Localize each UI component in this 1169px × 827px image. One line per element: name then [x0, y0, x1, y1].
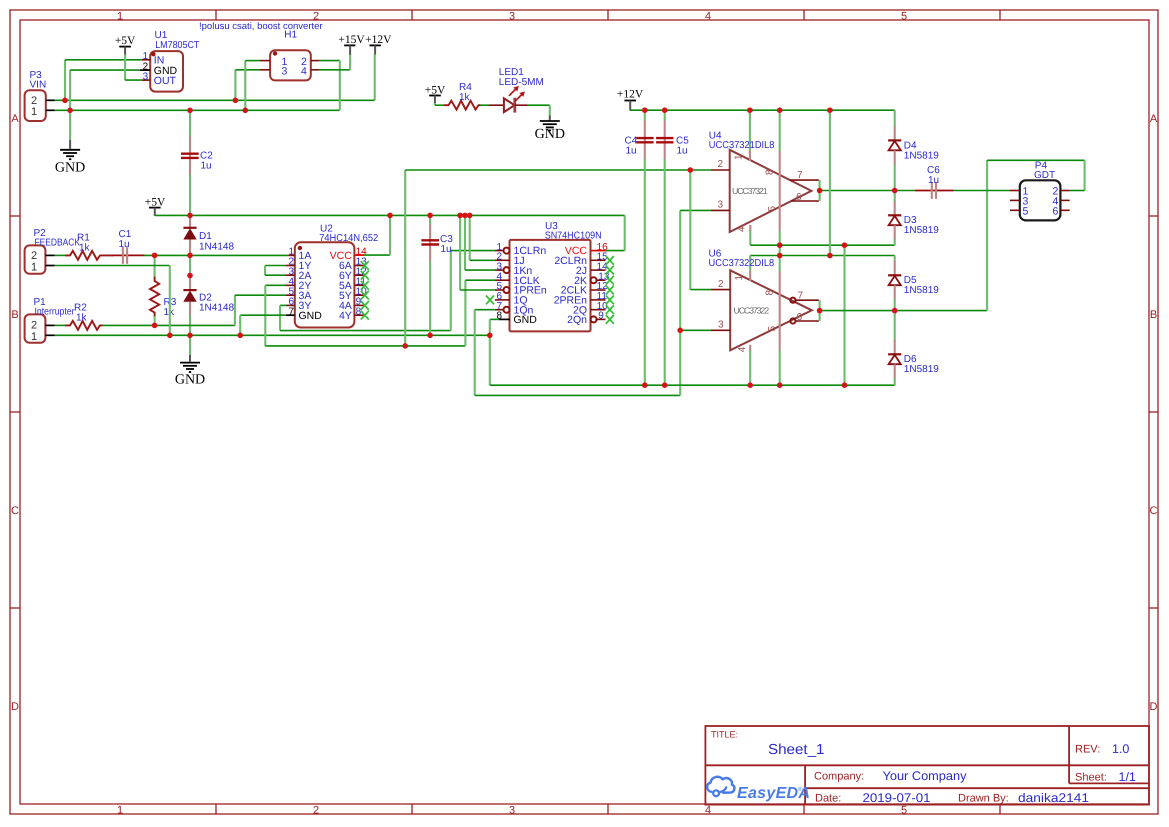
svg-text:®: ®: [798, 786, 803, 793]
wire R3 upper: [154, 255, 156, 277]
svg-text:3: 3: [282, 65, 288, 77]
wire C5 lower to gnd bus: [664, 159, 666, 385]
wire D2 anode to GND net: [189, 315, 191, 335]
node rail12-C4: [642, 107, 648, 113]
wire U6 output to P4 riser: [820, 310, 988, 312]
svg-text:OUT: OUT: [154, 75, 177, 87]
svg-text:1u: 1u: [119, 239, 130, 250]
svg-text:4: 4: [705, 804, 711, 816]
wire H1 pin1 riser: [244, 61, 246, 111]
wire +12V to VIN net: [374, 55, 376, 101]
svg-text:UCC37321DIL8: UCC37321DIL8: [709, 140, 775, 151]
svg-text:4: 4: [737, 226, 748, 232]
svg-text:Your Company: Your Company: [883, 769, 968, 783]
svg-text:1N5819: 1N5819: [904, 364, 939, 375]
power +12V (top): [365, 34, 392, 55]
svg-text:8: 8: [765, 290, 776, 296]
svg-text:UCC37321: UCC37321: [732, 186, 768, 196]
node rail12-C5: [662, 107, 668, 113]
svg-text:D: D: [1150, 701, 1158, 713]
ground symbol GND1: [55, 140, 85, 176]
svg-text:1u: 1u: [201, 160, 212, 171]
wire U2 pin7 to GND: [240, 314, 286, 316]
svg-text:UCC37322DIL8: UCC37322DIL8: [709, 258, 775, 269]
wire rail12 corner to D4: [894, 110, 896, 127]
svg-text:1: 1: [734, 154, 745, 160]
node clock-riser: [402, 343, 408, 349]
node VIN-U1: [62, 98, 68, 104]
svg-text:REV:: REV:: [1075, 744, 1100, 756]
node rail-U3pin3: [462, 213, 468, 219]
svg-text:1N5819: 1N5819: [904, 151, 939, 162]
wire U2 2Y to clock net: [265, 284, 285, 286]
wire D4 to out node: [894, 164, 896, 190]
node u4gnd-pin5: [777, 242, 783, 248]
U2 left pin stubs: [288, 254, 295, 256]
svg-text:6: 6: [797, 312, 803, 323]
U2 right pin numbers: [356, 246, 368, 317]
node gndbus-U6pin5: [777, 382, 783, 388]
svg-text:1u: 1u: [928, 175, 939, 186]
node gndbus-C4: [642, 382, 648, 388]
wire U6 pin5 to gnd bus: [779, 350, 781, 385]
wire U6 pin4/5 to gnd bus: [749, 351, 751, 386]
wire U3 pin8 to GND: [490, 318, 499, 320]
wire H1 pin2 to GND net: [319, 60, 340, 62]
svg-text:3: 3: [509, 804, 515, 816]
wire FEEDBACK net C1 to U2 pin1: [144, 254, 288, 256]
diode D2 1N4148: [183, 276, 234, 315]
svg-text:4Y: 4Y: [339, 310, 352, 322]
svg-text:9: 9: [598, 311, 604, 322]
wire U1 pin1 riser: [64, 60, 66, 101]
node FEEDBACK-D1: [187, 253, 193, 259]
wire out node to D3: [894, 191, 896, 202]
svg-text:Sheet_1: Sheet_1: [768, 742, 825, 758]
diode D3 1N5819: [888, 201, 939, 240]
svg-text:1: 1: [117, 11, 123, 23]
svg-text:1: 1: [31, 262, 37, 274]
wire VIN net P3.2 to U1/H1/+12V: [55, 99, 375, 101]
wire rail to U4 pin1: [749, 110, 751, 151]
LED LED1: [490, 67, 544, 113]
wire U2 3Y to U3 1CLRn: [280, 304, 287, 306]
diode D4 1N5819: [888, 126, 939, 165]
wire +5V to R4: [434, 103, 436, 105]
svg-text:5: 5: [901, 804, 907, 816]
ground symbol GND2: [535, 116, 565, 143]
wire +12V rail: [630, 109, 895, 111]
capacitor C3: [421, 223, 453, 262]
capacitor C5: [656, 110, 689, 159]
wire +12V drop to U6 vdd: [829, 110, 831, 255]
IC U3 SN74HC109N: [486, 221, 614, 331]
node GND-D2: [187, 333, 193, 339]
node GND-P2.1: [167, 333, 173, 339]
power +5V (U1 out): [115, 35, 136, 55]
svg-text:A: A: [1150, 113, 1158, 125]
U2 no-connect marks: [361, 261, 369, 319]
driver U6 UCC37322: [709, 249, 819, 353]
node GND-C2: [187, 108, 193, 114]
wire rail to U3 pin2: [469, 215, 471, 260]
node D2 cathode: [187, 273, 193, 279]
wire H1 pin3 riser: [234, 70, 236, 101]
svg-text:5: 5: [767, 326, 778, 332]
ground symbol GND3: [175, 355, 205, 388]
svg-text:TITLE:: TITLE:: [711, 730, 738, 740]
wire GND net P3.1: [55, 109, 340, 111]
resistor R2: [65, 303, 103, 330]
capacitor C1: [112, 229, 145, 264]
U3 pin names: [514, 245, 547, 326]
wire D1-D2 link: [189, 255, 191, 275]
title block: [705, 726, 1149, 805]
wire rail to U3 pin3: [464, 215, 466, 270]
svg-text:1: 1: [31, 106, 37, 118]
node Interrupter-R3: [152, 323, 158, 329]
node rail-U3pin5: [457, 213, 463, 219]
svg-text:+12V: +12V: [365, 34, 392, 46]
svg-text:1/1: 1/1: [1119, 770, 1136, 784]
diode D6 1N5819: [888, 311, 939, 379]
wire rail to U3 pin5: [459, 215, 461, 290]
node clock-U6pin2: [688, 167, 694, 173]
svg-text:1.0: 1.0: [1112, 742, 1129, 756]
diode D1 1N4148: [183, 216, 234, 255]
wire Interrupter net to U2 pin5: [103, 324, 235, 326]
svg-text:Sheet:: Sheet:: [1075, 772, 1107, 784]
node enable-U6pin3: [677, 328, 683, 334]
driver U4 UCC37321: [709, 130, 819, 232]
svg-text:5: 5: [1023, 205, 1029, 217]
resistor R4: [444, 82, 480, 110]
svg-text:5: 5: [767, 206, 778, 212]
svg-text:1k: 1k: [76, 313, 88, 324]
power +5V (rail): [145, 197, 166, 216]
wire GND stem: [69, 110, 71, 140]
U2 right pin stubs: [354, 254, 364, 256]
svg-text:B: B: [11, 309, 18, 321]
wire U6 vdd bus: [750, 255, 895, 257]
node rail-U2pin14: [387, 213, 393, 219]
node FEEDBACK-R3: [152, 253, 158, 259]
svg-text:5: 5: [901, 11, 907, 23]
svg-text:3: 3: [718, 200, 724, 211]
wire GND drop to lower gnd bus: [489, 335, 491, 385]
wire clock net horizontal: [265, 345, 465, 347]
wire U6 pin2 riser: [689, 170, 691, 290]
wire enable net horizontal: [475, 394, 681, 396]
node rail-C3: [427, 213, 433, 219]
node gndbus-U6pin4: [747, 382, 753, 388]
connector P3: [25, 70, 55, 121]
svg-text:LED-5MM: LED-5MM: [499, 77, 544, 88]
wire rail to U4 pin8: [779, 110, 781, 151]
svg-text:2Qn: 2Qn: [567, 314, 587, 326]
wire GND net bottom: [55, 334, 490, 336]
regulator U1 LM7805CT: [140, 30, 199, 92]
svg-text:7: 7: [798, 290, 804, 301]
svg-text:GND: GND: [175, 373, 205, 388]
svg-text:1N4148: 1N4148: [199, 241, 234, 252]
svg-text:Drawn By:: Drawn By:: [958, 793, 1009, 805]
svg-text:+5V: +5V: [145, 197, 166, 209]
wire P2.2 to R1: [55, 254, 66, 256]
IC U2 74HC14N: [285, 224, 378, 328]
wire U4 output join: [819, 180, 821, 201]
svg-text:2: 2: [31, 250, 37, 262]
header H1: [260, 30, 319, 81]
node rail12-U4pin1: [747, 107, 753, 113]
svg-text:1N5819: 1N5819: [904, 285, 939, 296]
svg-text:3: 3: [509, 11, 515, 23]
svg-text:Interrupter: Interrupter: [35, 307, 76, 318]
svg-text:1u: 1u: [677, 145, 688, 156]
wire C4 lower to gnd bus: [644, 159, 646, 385]
resistor R1: [65, 233, 113, 260]
svg-text:2: 2: [718, 159, 724, 170]
svg-text:B: B: [1150, 309, 1157, 321]
node GND-U1: [67, 108, 73, 114]
node U6 output: [817, 308, 823, 314]
node u4gnd-riser: [842, 242, 848, 248]
wire D6 to gnd bus: [894, 378, 896, 385]
U3 no-connect marks: [486, 256, 614, 324]
wire C2 upper: [189, 110, 191, 136]
wire R4 to LED1: [480, 104, 490, 106]
wire U4 pin2 input: [690, 169, 711, 171]
wire +5V to U1 pin3: [124, 55, 126, 81]
svg-text:SN74HC109N: SN74HC109N: [545, 231, 602, 242]
wire P2.1 to GND net: [55, 265, 170, 267]
node out6-diode column: [892, 308, 898, 314]
svg-text:1N5819: 1N5819: [904, 225, 939, 236]
node rail12-U6vdd: [827, 107, 833, 113]
svg-text:GND: GND: [514, 314, 538, 326]
node vdd6-12v: [827, 253, 833, 259]
wire +5V rail: [155, 214, 625, 216]
svg-text:7: 7: [288, 306, 294, 317]
wire GND stem mid: [189, 335, 191, 355]
svg-text:GND: GND: [299, 310, 323, 322]
wire U6 output join: [819, 300, 821, 321]
svg-text:D: D: [11, 701, 19, 713]
svg-text:1k: 1k: [459, 92, 471, 103]
node GND-C3: [427, 333, 433, 339]
U3 right pin numbers: [597, 242, 610, 322]
svg-text:1N4148: 1N4148: [199, 303, 234, 314]
wire pin8 column link: [779, 231, 781, 272]
power +15V: [338, 34, 365, 55]
svg-text:3: 3: [143, 72, 149, 83]
wire R3 lower: [154, 316, 156, 325]
svg-text:FEEDBACK: FEEDBACK: [35, 238, 81, 249]
svg-text:LM7805CT: LM7805CT: [155, 40, 199, 51]
node GND-U2pin7: [237, 333, 243, 339]
wire U6 pin3 tap: [680, 329, 711, 331]
svg-text:2: 2: [313, 804, 319, 816]
U3 left pin numbers: [496, 242, 502, 322]
svg-text:1u: 1u: [441, 244, 452, 255]
svg-text:4: 4: [737, 346, 748, 352]
power +12V (rail): [617, 89, 644, 111]
wire U2 1Y to 2A loop: [265, 265, 285, 267]
wire U6 pin1 drop: [749, 256, 751, 272]
svg-text:Date:: Date:: [815, 793, 841, 805]
capacitor C6: [915, 165, 954, 199]
svg-text:C: C: [1150, 505, 1158, 517]
svg-text:+5V: +5V: [425, 84, 446, 96]
svg-text:6: 6: [796, 192, 802, 203]
svg-text:VIN: VIN: [30, 80, 47, 91]
wire U3 pin16 to +5V rail: [606, 250, 625, 252]
svg-text:1: 1: [117, 804, 123, 816]
svg-text:8: 8: [765, 169, 776, 175]
svg-text:GDT: GDT: [1034, 170, 1055, 181]
svg-text:7: 7: [797, 170, 803, 181]
svg-text:danika2141: danika2141: [1018, 791, 1089, 805]
svg-text:+12V: +12V: [617, 89, 644, 101]
node gndbus-riser: [842, 382, 848, 388]
U2 left pin numbers: [288, 247, 294, 318]
connector P2: [25, 228, 81, 274]
svg-text:GND: GND: [55, 161, 85, 176]
node rail-C2: [187, 213, 193, 219]
svg-text:+15V: +15V: [338, 34, 365, 46]
svg-text:3: 3: [718, 320, 724, 331]
svg-text:6: 6: [1053, 205, 1059, 217]
svg-text:2: 2: [718, 279, 724, 290]
capacitor C4: [625, 110, 654, 159]
wire U4gnd to D6 riser: [843, 245, 845, 385]
resistor R3: [150, 277, 177, 318]
connector P4 GDT: [1010, 160, 1070, 220]
wire C6 to P4 pin1: [954, 190, 1011, 192]
node gndbus-C5: [662, 382, 668, 388]
wire P4 pin2 route: [986, 160, 988, 310]
EasyEDA logo: [707, 777, 810, 802]
node out-diode column: [892, 188, 898, 194]
svg-text:UCC37322: UCC37322: [734, 306, 770, 316]
svg-text:C: C: [11, 505, 19, 517]
wire LED1 to GND: [528, 104, 550, 106]
wire P1.2 to R2: [55, 324, 66, 326]
svg-text:4: 4: [301, 65, 307, 77]
svg-text:74HC14N,652: 74HC14N,652: [319, 233, 378, 244]
connector P1: [25, 297, 75, 343]
wire U4 pin4/5 gnd link: [749, 231, 751, 246]
node rail-U3pin2: [467, 213, 473, 219]
wire C2 lower to +5V rail: [189, 175, 191, 216]
wire clock riser to drivers: [404, 170, 406, 346]
svg-text:Company:: Company:: [814, 771, 864, 783]
wire D3 to u4gnd wire: [894, 239, 896, 245]
wire D5 to U6 out: [894, 299, 896, 311]
svg-text:A: A: [11, 113, 19, 125]
wire U1 pin2 riser: [69, 70, 71, 110]
svg-text:4: 4: [705, 11, 711, 23]
node rail12-U4pin8: [777, 107, 783, 113]
capacitor C2: [181, 136, 213, 175]
wire U2 pin14 to +5V rail: [364, 254, 390, 256]
power +5V (LED): [425, 84, 446, 103]
svg-text:1u: 1u: [626, 145, 637, 156]
wire C3 lower to GND: [429, 261, 431, 336]
svg-text:+5V: +5V: [115, 35, 136, 47]
wire lower gnd bus: [490, 384, 895, 386]
svg-text:1k: 1k: [79, 243, 91, 254]
U3 right pin stubs: [591, 250, 606, 252]
svg-text:2019-07-01: 2019-07-01: [863, 791, 931, 805]
svg-text:!polusu csati, boost converter: !polusu csati, boost converter: [199, 21, 323, 32]
svg-text:2: 2: [31, 320, 37, 332]
svg-text:H1: H1: [284, 30, 297, 41]
svg-text:1: 1: [734, 275, 745, 281]
diode D5 1N5819: [888, 256, 939, 300]
U2 pin names: [299, 250, 323, 322]
node GND-U3pin8: [487, 333, 493, 339]
wire U4 output to C6: [820, 190, 915, 192]
node GND-H1: [243, 108, 249, 114]
U3 left pin stubs: [495, 250, 505, 252]
wire C3 upper: [429, 215, 431, 224]
wire U3 pin7 to enable net: [475, 309, 495, 311]
node VIN-H1: [233, 98, 239, 104]
svg-text:1: 1: [31, 331, 37, 343]
svg-text:GND: GND: [535, 127, 565, 142]
wire H1 pin4 to +15V: [319, 69, 350, 71]
node U4 output: [817, 188, 823, 194]
node vdd6-pin8col: [777, 253, 783, 259]
